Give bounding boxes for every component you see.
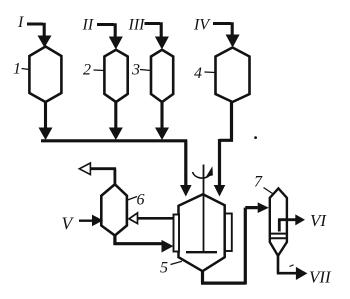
wire VII outlet [277,256,308,281]
svg-text:2: 2 [83,62,91,79]
label 2 [83,62,104,79]
label 3 [131,62,151,79]
label 4 [194,65,216,82]
column plates [270,234,287,239]
label III [128,17,146,34]
svg-text:6: 6 [137,192,145,209]
svg-text:III: III [128,17,146,34]
reactor 5 body [179,194,225,271]
feed line III [145,22,169,49]
label I [17,14,24,31]
label 5 [160,260,182,277]
svg-text:I: I [17,14,24,31]
svg-text:IV: IV [193,17,211,34]
stirrer shaft [203,165,205,252]
stray dot [254,136,257,139]
wire VI outlet [278,214,305,231]
label IV [193,17,211,34]
svg-text:II: II [82,17,94,34]
stray tick [290,265,294,267]
vessel 3 [151,50,173,102]
separator 6 [101,184,127,235]
vent wire from separator 6 [79,163,116,185]
feed wire V [79,215,103,227]
vessel 2 [104,50,127,102]
label 7 [254,174,273,194]
svg-text:5: 5 [160,260,168,277]
svg-text:3: 3 [131,62,140,79]
vessel 1 [29,47,61,103]
wire reactor bottom to column 7 [201,202,269,284]
label VII [309,268,332,287]
label II [82,17,94,34]
svg-text:4: 4 [194,65,202,82]
rotation arrow [193,166,213,178]
outlet wire vessel 1 [39,102,53,140]
outlet wire vessel 4 to reactor [214,102,233,197]
svg-text:VI: VI [310,211,327,230]
label 1 [13,61,30,78]
svg-text:VII: VII [309,268,332,287]
feed line IV [213,22,240,47]
wire separator 6 to reactor [113,236,173,253]
label V [62,214,75,234]
svg-text:1: 1 [13,61,21,78]
feed line II [97,23,123,49]
vessel 4 [216,48,250,103]
wire reactor to separator 6 [129,213,174,224]
reactor left jacket [174,215,180,252]
label VI [310,211,327,230]
stirrer paddle [186,251,217,253]
svg-text:7: 7 [254,174,263,191]
header wire from vessels 1-3 to reactor [41,141,192,197]
feed line I [27,23,52,48]
outlet wire vessel 3 [155,102,169,140]
column 7 [270,188,287,255]
label 6 [128,192,145,209]
reactor right jacket [225,214,232,252]
outlet wire vessel 2 [109,102,123,140]
